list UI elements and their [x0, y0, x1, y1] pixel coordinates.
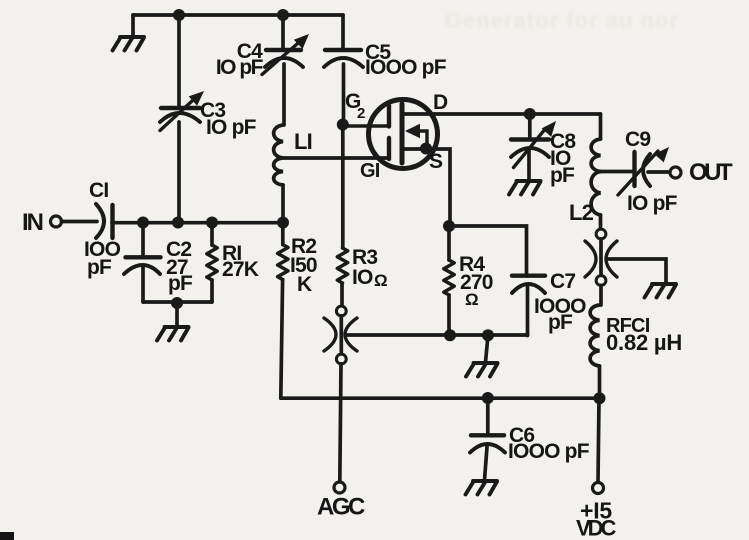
feedthrough capacitor (AGC line): [324, 306, 357, 364]
capacitor C1 100 pF: [96, 204, 113, 238]
terminal IN: [51, 216, 62, 227]
wire feedthrough to RFC1: [599, 285, 603, 305]
wire drain lead: [403, 112, 601, 116]
svg-text:Ω: Ω: [465, 290, 478, 309]
capacitor C8 (variable, 10 pF): [511, 114, 556, 180]
node bypass rail / ground: [482, 329, 494, 341]
wire top ground rail: [133, 13, 343, 17]
wire C2 R1 bottom rail: [143, 300, 212, 304]
ground (below C6): [466, 481, 498, 495]
inductor L2: [591, 139, 600, 215]
wire source lead: [403, 149, 450, 226]
wire IN to C1: [62, 220, 98, 224]
ground (bypass rail): [486, 335, 489, 362]
svg-text:0.82 µH: 0.82 µH: [606, 330, 682, 355]
svg-text:2: 2: [357, 105, 365, 122]
feedthrough capacitor (L2/RFC1 line): [585, 229, 617, 285]
wire feedthrough tap to ground: [607, 259, 666, 283]
wire L2 to feedthrough: [599, 215, 603, 229]
svg-text:IOOO pF: IOOO pF: [365, 56, 447, 79]
node supply rail / C6: [482, 392, 494, 404]
capacitor C7 1000 pF: [512, 276, 545, 336]
svg-text:IO pF: IO pF: [627, 192, 678, 215]
capacitor C6 1000 pF: [470, 398, 505, 480]
inductor RFC1: [590, 305, 599, 366]
node rail / C3: [172, 217, 184, 229]
wire C3 to input rail: [177, 122, 181, 222]
wire feedthrough to AGC terminal: [340, 364, 341, 482]
resistor R1 27K: [207, 223, 217, 303]
svg-text:L2: L2: [569, 200, 594, 225]
svg-text:IN: IN: [22, 209, 43, 236]
wire L1 to input rail: [281, 185, 285, 222]
wire L2 tap to C9: [601, 170, 633, 174]
ground (top left): [131, 15, 135, 36]
node drain / C8: [524, 108, 536, 120]
node top rail / C4: [277, 9, 289, 21]
wire bypass rail (feedthrough tap to C7): [348, 333, 528, 337]
node bottom rail ground: [171, 297, 183, 309]
svg-text:AGC: AGC: [317, 494, 365, 521]
terminal OUT: [670, 167, 681, 178]
resistor R2 150K: [278, 223, 288, 399]
svg-text:Generator for au nor: Generator for au nor: [445, 8, 679, 33]
svg-text:pF: pF: [87, 256, 112, 279]
svg-text:27K: 27K: [222, 258, 259, 281]
capacitor C4 (variable, 10 pF): [262, 34, 309, 75]
wire C4 to L1: [282, 64, 286, 125]
ground (below C2): [175, 303, 179, 326]
svg-text:GI: GI: [360, 160, 380, 182]
transistor Q1 dual-gate MOSFET: [343, 100, 438, 169]
svg-text:K: K: [297, 273, 312, 296]
capacitor C3 (variable, 10 pF): [160, 91, 204, 131]
ground (right of RFC1): [645, 284, 677, 298]
wire drain corner to L2: [599, 114, 603, 139]
wire G2 node down to R3: [341, 125, 345, 249]
node supply rail / RFC1: [594, 392, 606, 404]
wire G1 lead from L1 tap: [283, 156, 389, 160]
wire R3 to feedthrough: [340, 283, 344, 306]
svg-text:pF: pF: [548, 311, 573, 334]
wire top rail corner to C5: [341, 15, 345, 50]
svg-text:IO pF: IO pF: [206, 116, 257, 139]
ground (below C8): [509, 181, 541, 195]
svg-text:CI: CI: [89, 179, 108, 202]
svg-text:VDC: VDC: [576, 516, 617, 540]
svg-text:C7: C7: [550, 270, 575, 293]
svg-text:IOOO pF: IOOO pF: [508, 440, 590, 463]
svg-text:S: S: [429, 150, 443, 173]
node G2: [337, 119, 349, 131]
node rail / C2: [137, 217, 149, 229]
node top rail / C3: [173, 9, 185, 21]
svg-text:Ω: Ω: [374, 271, 387, 290]
wire supply rail: [281, 396, 600, 400]
wire C4 branch upper: [281, 15, 285, 50]
terminal +15 VDC: [593, 483, 604, 494]
terminal AGC: [334, 482, 345, 493]
inductor L1: [274, 125, 283, 185]
node rail / R1: [206, 217, 218, 229]
resistor R3 10 ohm: [337, 248, 347, 283]
svg-text:C9: C9: [625, 128, 650, 151]
wire input rail: [112, 221, 283, 225]
wire RFC1 to supply rail: [598, 366, 602, 398]
svg-text:D: D: [433, 91, 448, 114]
svg-text:IO pF: IO pF: [216, 56, 264, 79]
wire C3 branch upper: [177, 15, 181, 108]
node bypass rail / R4: [444, 329, 456, 341]
svg-text:IO: IO: [352, 266, 373, 289]
wire C5 to G2 node: [342, 64, 346, 125]
capacitor C5 1000 pF: [324, 50, 363, 67]
wire source node to C7: [449, 226, 527, 276]
capacitor C2 27 pF: [124, 223, 161, 303]
wire supply rail to +15 terminal: [598, 398, 599, 482]
capacitor C9 (variable, 10 pF): [618, 147, 670, 195]
node substrate/source: [420, 143, 432, 155]
svg-text:pF: pF: [550, 164, 575, 187]
svg-text:OUT: OUT: [689, 159, 733, 186]
resistor R4 270 ohm: [444, 226, 454, 336]
node source / R4: [443, 220, 455, 232]
svg-text:LI: LI: [294, 129, 312, 154]
svg-text:pF: pF: [168, 272, 193, 295]
node rail / L1 R2: [277, 217, 289, 229]
